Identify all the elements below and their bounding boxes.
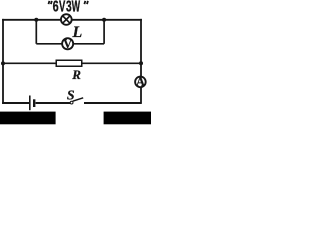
- wire: bottom middle segment (battery to switch): [36, 102, 71, 104]
- voltmeter U1 (circle V): [62, 37, 73, 51]
- wire: bottom right segment (switch to right corner): [84, 102, 141, 104]
- battery cell: short thick plate (-): [33, 99, 35, 107]
- wire: resistor branch horizontal: [2, 62, 141, 64]
- svg-text:S: S: [67, 87, 75, 102]
- wire: top branch (lamp branch): [2, 19, 142, 21]
- node: junction right (resistor branch): [139, 61, 143, 65]
- redaction bar: bottom right: [104, 112, 151, 125]
- resistor R (rectangle): [56, 60, 82, 66]
- svg-text:6: 6: [53, 0, 59, 16]
- label: lamp rating "6V3W": [53, 0, 81, 16]
- battery cell: long plate (+): [29, 96, 31, 111]
- wire: bottom left segment (to battery): [2, 102, 29, 104]
- wire: right vertical: [140, 19, 142, 104]
- svg-text:A: A: [136, 75, 145, 89]
- wire: voltmeter branch right vertical: [103, 20, 105, 44]
- svg-text:R: R: [71, 67, 81, 82]
- wire: left vertical: [2, 19, 4, 104]
- svg-text:3: 3: [66, 0, 72, 16]
- label: opening quote of rating: [48, 1, 51, 4]
- svg-text:V: V: [59, 0, 66, 16]
- switch S: blade: [73, 98, 84, 101]
- switch S: pivot circle: [70, 101, 73, 104]
- node: junction top-right (voltmeter tap): [102, 18, 106, 22]
- svg-text:V: V: [63, 37, 72, 51]
- svg-text:W: W: [72, 0, 81, 16]
- label: closing quote of rating: [83, 1, 86, 4]
- svg-text:L: L: [72, 24, 83, 41]
- wire: voltmeter branch horizontal: [36, 43, 104, 45]
- lamp L (circle with X): [61, 14, 72, 25]
- node: junction top-left (voltmeter tap): [34, 18, 38, 22]
- wire: voltmeter branch left vertical: [35, 20, 37, 44]
- redaction bar: bottom left: [0, 112, 56, 125]
- node: junction left (resistor branch): [1, 61, 5, 65]
- ammeter A1 (circle A): [135, 75, 146, 89]
